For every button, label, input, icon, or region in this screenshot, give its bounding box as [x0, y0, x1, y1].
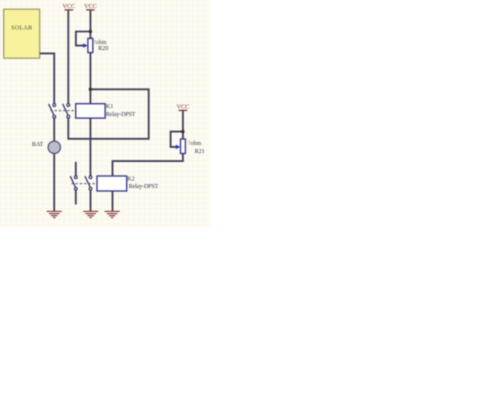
svg-text:VCC: VCC — [84, 4, 97, 10]
svg-text:Relay-DPST: Relay-DPST — [106, 112, 136, 118]
svg-text:R20: R20 — [98, 46, 108, 52]
svg-text:?ohm: ?ohm — [93, 40, 107, 46]
svg-text:SOLAR: SOLAR — [11, 25, 33, 32]
svg-text:VCC: VCC — [63, 4, 76, 10]
svg-text:K1: K1 — [106, 104, 113, 110]
svg-text:K2: K2 — [127, 177, 134, 183]
svg-text:R21: R21 — [195, 149, 205, 155]
svg-text:?ohm: ?ohm — [188, 141, 202, 147]
svg-text:Relay-DPST: Relay-DPST — [129, 184, 159, 190]
svg-text:BAT: BAT — [32, 142, 44, 148]
svg-text:VCC: VCC — [177, 105, 190, 111]
